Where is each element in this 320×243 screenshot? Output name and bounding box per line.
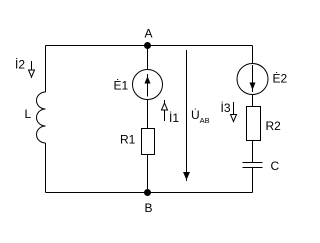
wire node A to source E1 <box>147 46 149 70</box>
current I3 arrow <box>231 102 237 122</box>
wire C to bottom rail <box>252 168 254 193</box>
node A junction dot <box>144 42 151 49</box>
svg-text:İ1: İ1 <box>169 111 179 125</box>
svg-text:C: C <box>271 159 280 173</box>
svg-text:A: A <box>145 27 153 41</box>
source E1 internal arrow (up) <box>145 74 151 97</box>
wire top rail (node A rail) <box>46 45 253 47</box>
svg-text:R2: R2 <box>266 119 282 133</box>
resistor R1 <box>142 129 155 155</box>
wire R2 to capacitor C <box>252 141 254 163</box>
wire E1 to R1 <box>147 100 149 129</box>
wire top rail to source E2 <box>252 46 254 65</box>
source E1 circle <box>133 70 163 100</box>
wire left branch lower segment <box>45 143 47 193</box>
node B junction dot <box>144 189 151 196</box>
source E2 circle <box>237 64 268 95</box>
svg-text:L: L <box>25 107 32 121</box>
wire bottom rail (node B rail) <box>46 192 253 194</box>
wire R1 to node B <box>147 155 149 193</box>
svg-text:İ2: İ2 <box>15 58 25 72</box>
source E2 internal arrow (down) <box>250 65 256 92</box>
capacitor C bottom plate <box>243 167 263 169</box>
resistor R2 <box>247 107 261 141</box>
svg-text:Ė1: Ė1 <box>114 79 129 93</box>
wire E2 to R2 <box>252 95 254 107</box>
svg-text:B: B <box>145 201 153 215</box>
current I2 arrow <box>29 61 35 78</box>
inductor L <box>37 92 46 143</box>
capacitor C top plate <box>243 162 263 164</box>
current I1 arrow <box>162 100 168 121</box>
svg-text:Ė2: Ė2 <box>273 72 288 86</box>
svg-text:R1: R1 <box>120 133 136 147</box>
wire left branch upper segment <box>45 46 47 93</box>
voltage Uab arrow <box>183 50 190 181</box>
svg-text:İ3: İ3 <box>221 101 231 115</box>
